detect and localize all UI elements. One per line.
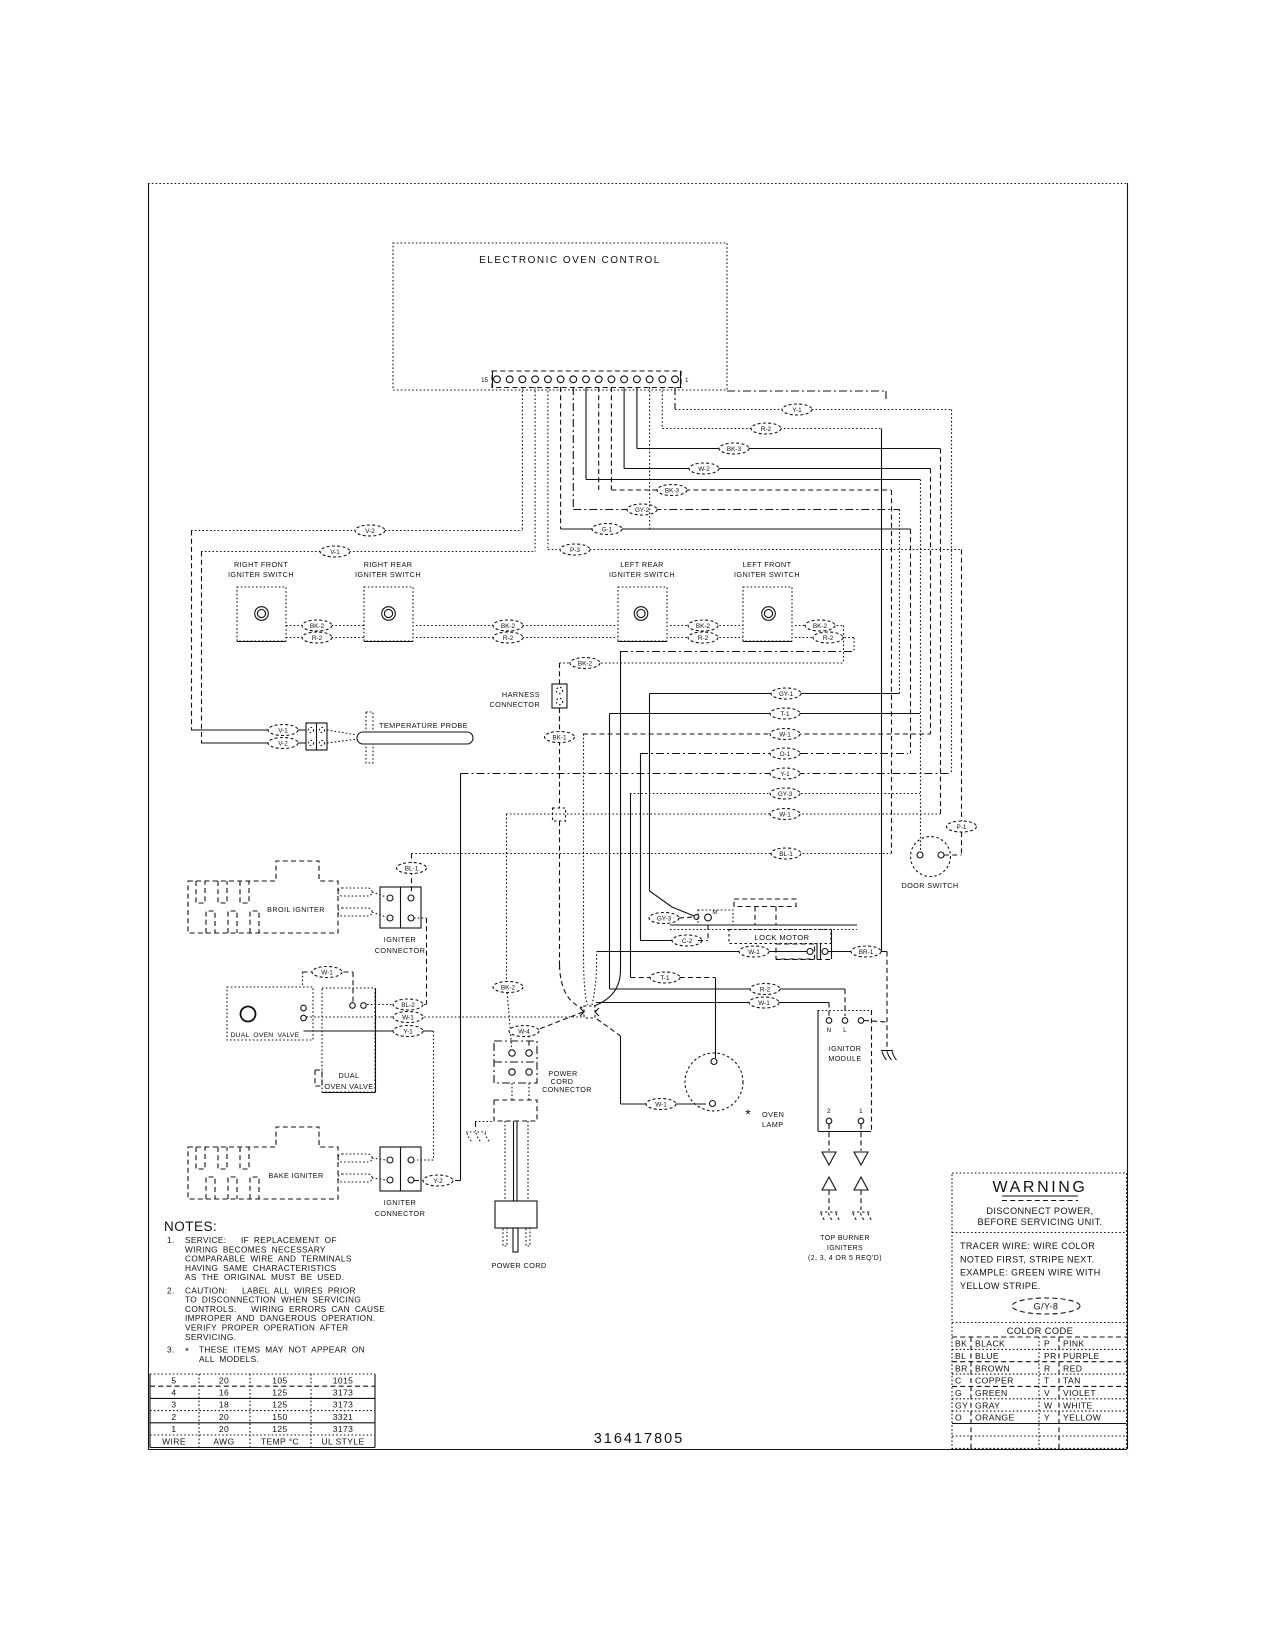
svg-text:POWER CORD: POWER CORD <box>491 1261 546 1270</box>
wire W-1 (bundle row) <box>583 729 931 1006</box>
svg-text:NOTES:: NOTES: <box>164 1219 217 1234</box>
svg-text:CONNECTOR: CONNECTOR <box>375 1209 426 1218</box>
svg-text:IGNITER SWITCH: IGNITER SWITCH <box>228 570 294 579</box>
svg-text:UL STYLE: UL STYLE <box>321 1436 364 1446</box>
wire T-1 to oven lamp <box>631 972 716 1058</box>
svg-text:V-2: V-2 <box>278 740 288 747</box>
svg-text:125: 125 <box>272 1400 287 1410</box>
svg-text:R-2: R-2 <box>312 635 323 642</box>
broil igniter E2 <box>188 861 372 933</box>
wire G-1 (terminal 10 to right bundle) <box>561 387 911 754</box>
svg-text:OVEN VALVE: OVEN VALVE <box>324 1082 373 1091</box>
svg-text:Y-1: Y-1 <box>403 1028 413 1035</box>
wire Y-2 from bake connector <box>414 1175 461 1186</box>
svg-text:20: 20 <box>219 1412 229 1422</box>
svg-text:BL-2: BL-2 <box>401 1002 415 1009</box>
dual oven valve body V2 <box>315 988 376 1093</box>
wire W-1 junction to oven lamp <box>597 1019 706 1110</box>
svg-text:GY-3: GY-3 <box>778 791 793 798</box>
wire R-2 to igniter module <box>610 984 846 1017</box>
EOC bottom-right wire stub <box>727 391 886 399</box>
wire BL-1 (bundle row to broil igniter) <box>397 848 892 895</box>
svg-text:O-1: O-1 <box>780 751 791 758</box>
svg-text:2.: 2. <box>167 1285 175 1295</box>
svg-text:BR: BR <box>955 1363 968 1373</box>
notes text block <box>164 1219 385 1364</box>
svg-text:*: * <box>745 1106 751 1122</box>
svg-text:L: L <box>843 1027 847 1034</box>
svg-text:1015: 1015 <box>333 1375 354 1385</box>
svg-text:ORANGE: ORANGE <box>975 1413 1015 1423</box>
svg-text:T-1: T-1 <box>780 711 790 718</box>
svg-text:P-3: P-3 <box>570 547 580 554</box>
lock motor terminal block <box>776 943 832 960</box>
svg-text:Y-1: Y-1 <box>792 407 802 414</box>
svg-text:20: 20 <box>219 1424 229 1434</box>
svg-text:Y: Y <box>1044 1413 1050 1423</box>
svg-text:NOTED FIRST, STRIPE NEXT.: NOTED FIRST, STRIPE NEXT. <box>960 1254 1095 1264</box>
svg-text:BL-1: BL-1 <box>779 851 793 858</box>
wire C-2 into lock motor <box>641 925 709 946</box>
svg-text:BK-2: BK-2 <box>501 984 516 991</box>
terminal stubs 3 and 7 <box>599 387 650 530</box>
wire W-1 lower (bundle row) <box>493 809 940 1048</box>
igniter module output 2 <box>822 1124 836 1165</box>
wire V-2 lead <box>201 738 306 749</box>
door switch S5 <box>901 837 958 891</box>
svg-text:T: T <box>1044 1376 1050 1386</box>
svg-text:GY-1: GY-1 <box>779 691 794 698</box>
svg-text:RIGHT FRONT: RIGHT FRONT <box>234 560 288 569</box>
svg-text:R-2: R-2 <box>823 635 834 642</box>
svg-text:150: 150 <box>272 1412 287 1422</box>
part number 316417805 <box>594 1431 685 1447</box>
EOC terminal strip P5 <box>481 371 689 388</box>
svg-text:ALL MODELS.: ALL MODELS. <box>199 1354 259 1364</box>
svg-text:1: 1 <box>171 1424 176 1434</box>
top burner igniters label <box>808 1235 882 1262</box>
svg-text:R-2: R-2 <box>760 986 771 993</box>
lock motor solenoid bar <box>734 899 796 925</box>
svg-text:LEFT FRONT: LEFT FRONT <box>743 560 792 569</box>
svg-text:1.: 1. <box>167 1235 175 1245</box>
harness connector P2 <box>490 684 568 709</box>
power cord cable <box>505 1121 528 1201</box>
svg-text:W-1: W-1 <box>779 731 791 738</box>
wire BK-3 lower (terminal 6 to right bundle) <box>611 387 891 854</box>
svg-text:BLUE: BLUE <box>975 1351 999 1361</box>
svg-text:PINK: PINK <box>1063 1339 1085 1349</box>
svg-text:3173: 3173 <box>333 1400 354 1410</box>
svg-text:W-1: W-1 <box>321 969 333 976</box>
svg-text:CONNECTOR: CONNECTOR <box>375 946 426 955</box>
svg-text:N: N <box>827 1027 832 1034</box>
svg-text:IGNITOR: IGNITOR <box>829 1044 862 1053</box>
svg-text:105: 105 <box>272 1375 287 1385</box>
temperature probe connector <box>306 723 327 750</box>
border frame <box>148 183 1128 1450</box>
svg-text:GY: GY <box>955 1400 968 1410</box>
right rear igniter switch S2 <box>355 560 421 642</box>
igniter module U2 <box>818 1010 872 1132</box>
svg-text:2: 2 <box>827 1108 831 1115</box>
svg-text:R-2: R-2 <box>503 635 514 642</box>
svg-text:BR-1: BR-1 <box>859 949 874 956</box>
svg-text:LEFT REAR: LEFT REAR <box>620 560 664 569</box>
svg-text:15: 15 <box>481 377 488 384</box>
svg-text:BK: BK <box>955 1339 967 1349</box>
svg-text:BK-2: BK-2 <box>501 623 516 630</box>
wire BK-1 below harness connector <box>545 708 575 808</box>
svg-text:EXAMPLE: GREEN WIRE WITH: EXAMPLE: GREEN WIRE WITH <box>960 1268 1101 1278</box>
svg-text:V-1: V-1 <box>330 549 340 556</box>
wire BK-2 switch chain <box>286 620 844 631</box>
svg-text:W-1: W-1 <box>758 1000 770 1007</box>
svg-text:5: 5 <box>171 1375 176 1385</box>
svg-text:SERVICING.: SERVICING. <box>185 1332 236 1342</box>
svg-text:COPPER: COPPER <box>975 1376 1014 1386</box>
svg-text:BROIL IGNITER: BROIL IGNITER <box>267 905 325 914</box>
svg-text:P-1: P-1 <box>957 824 967 831</box>
svg-text:T-1: T-1 <box>660 975 670 982</box>
svg-text:Y-1: Y-1 <box>780 771 790 778</box>
bake igniter connector P4 <box>372 1147 425 1218</box>
color code table <box>952 1337 1127 1448</box>
svg-text:BK-2: BK-2 <box>813 623 828 630</box>
svg-text:BEFORE SERVICING UNIT.: BEFORE SERVICING UNIT. <box>977 1217 1102 1227</box>
svg-text:316417805: 316417805 <box>594 1431 685 1447</box>
wire T-1 (bundle to junction column) <box>610 708 921 989</box>
svg-text:TEMP °C: TEMP °C <box>261 1436 299 1446</box>
broil igniter connector P3 <box>372 887 425 955</box>
svg-text:18: 18 <box>219 1400 229 1410</box>
svg-text:*: * <box>185 1347 189 1358</box>
svg-text:DOOR SWITCH: DOOR SWITCH <box>901 881 958 890</box>
electronic oven control U1 <box>393 243 727 390</box>
lock motor M1 <box>698 910 733 925</box>
wire GY-3 (bundle row) <box>630 788 920 978</box>
svg-text:COLOR CODE: COLOR CODE <box>1007 1326 1074 1336</box>
svg-text:IGNITER SWITCH: IGNITER SWITCH <box>355 570 421 579</box>
svg-text:GY-2: GY-2 <box>635 507 650 514</box>
svg-text:RED: RED <box>1063 1363 1082 1373</box>
svg-text:G/Y-8: G/Y-8 <box>1034 1302 1059 1312</box>
svg-text:PR: PR <box>1044 1351 1057 1361</box>
svg-text:125: 125 <box>272 1424 287 1434</box>
svg-text:R-2: R-2 <box>761 426 772 433</box>
svg-text:3173: 3173 <box>333 1424 354 1434</box>
svg-text:BAKE IGNITER: BAKE IGNITER <box>268 1171 323 1180</box>
svg-text:W-1: W-1 <box>402 1014 414 1021</box>
wire W-1 junction to igniter module <box>596 997 829 1016</box>
svg-text:V-1: V-1 <box>278 727 288 734</box>
svg-text:AWG: AWG <box>213 1436 234 1446</box>
svg-text:IGNITER: IGNITER <box>384 1198 416 1207</box>
wire Y-1 (oven valve to bake connector) <box>304 1026 434 1161</box>
svg-text:OVEN: OVEN <box>762 1110 784 1119</box>
svg-text:R: R <box>1044 1363 1051 1373</box>
svg-text:W-4: W-4 <box>518 1028 530 1035</box>
lock motor frame bar <box>670 925 857 959</box>
svg-text:W-1: W-1 <box>748 949 760 956</box>
wire P-3 (terminal 11 to right bundle) <box>548 387 962 821</box>
dual oven valve (gas) V1 <box>227 987 313 1040</box>
svg-text:BK-2: BK-2 <box>310 623 325 630</box>
svg-text:TAN: TAN <box>1063 1376 1081 1386</box>
svg-text:DISCONNECT POWER,: DISCONNECT POWER, <box>986 1206 1093 1216</box>
svg-text:TEMPERATURE PROBE: TEMPERATURE PROBE <box>379 721 468 730</box>
svg-text:RIGHT REAR: RIGHT REAR <box>364 560 413 569</box>
svg-text:R-2: R-2 <box>698 635 709 642</box>
svg-text:ELECTRONIC OVEN CONTROL: ELECTRONIC OVEN CONTROL <box>479 255 661 266</box>
svg-text:W-1: W-1 <box>655 1101 667 1108</box>
svg-text:V-2: V-2 <box>365 528 375 535</box>
wire gauge table <box>150 1374 375 1448</box>
wire P-1 to door switch <box>944 821 977 855</box>
power cord plug <box>491 1201 546 1270</box>
top burner igniter lead 2 <box>820 1177 841 1222</box>
wire O-1 (bundle row) <box>640 748 908 941</box>
svg-text:CONNECTOR: CONNECTOR <box>490 700 541 709</box>
wire V-1 lead <box>191 725 306 736</box>
top burner igniter lead 1 <box>852 1177 873 1222</box>
wire GY-3 into lock motor <box>649 913 699 924</box>
bake igniter E1 <box>188 1127 372 1199</box>
svg-text:2: 2 <box>171 1412 176 1422</box>
left front igniter switch S4 <box>734 560 800 642</box>
svg-text:BK-2: BK-2 <box>696 623 711 630</box>
svg-text:G-1: G-1 <box>602 526 613 533</box>
svg-text:IGNITERS: IGNITERS <box>827 1245 863 1252</box>
svg-text:20: 20 <box>219 1375 229 1385</box>
svg-text:G: G <box>955 1388 962 1398</box>
svg-text:BL-1: BL-1 <box>405 865 419 872</box>
svg-text:MODULE: MODULE <box>828 1054 861 1063</box>
wire BK-2 to harness connector <box>560 626 844 685</box>
svg-text:16: 16 <box>219 1388 229 1398</box>
svg-text:GY-3: GY-3 <box>657 915 672 922</box>
svg-text:BK-2: BK-2 <box>578 660 593 667</box>
wire R-2 return to junction <box>594 638 854 1007</box>
svg-text:3: 3 <box>171 1400 176 1410</box>
svg-text:YELLOW STRIPE.: YELLOW STRIPE. <box>960 1281 1041 1291</box>
svg-text:C-2: C-2 <box>682 938 693 945</box>
svg-text:IGNITER: IGNITER <box>384 935 416 944</box>
wire W-1 over oven valve <box>303 967 354 1003</box>
wire BL-2 (broil connector to oven valve) <box>367 918 427 1010</box>
wire Y-1 (bundle row to bake igniter side) <box>461 768 952 1181</box>
power cord strain relief <box>494 1083 537 1121</box>
svg-text:Y-2: Y-2 <box>433 1178 443 1185</box>
svg-text:TRACER WIRE: WIRE COLOR: TRACER WIRE: WIRE COLOR <box>960 1241 1095 1251</box>
right front igniter switch S1 <box>228 560 294 642</box>
wire BK-1 (terminal 8 to right bundle) <box>586 387 921 852</box>
svg-text:DUAL OVEN VALVE: DUAL OVEN VALVE <box>231 1032 300 1039</box>
wire W-1 to lock motor <box>592 946 807 1005</box>
svg-text:BLACK: BLACK <box>975 1339 1005 1349</box>
warning box <box>952 1173 1127 1448</box>
svg-text:V: V <box>1044 1388 1050 1398</box>
svg-text:WHITE: WHITE <box>1063 1400 1093 1410</box>
svg-text:C: C <box>955 1376 962 1386</box>
svg-text:TOP BURNER: TOP BURNER <box>820 1235 870 1242</box>
svg-text:P: P <box>1044 1339 1050 1349</box>
svg-text:W-1: W-1 <box>779 811 791 818</box>
svg-text:4: 4 <box>171 1388 176 1398</box>
left rear igniter switch S3 <box>609 560 675 642</box>
svg-text:O: O <box>955 1413 962 1423</box>
svg-text:BK-3: BK-3 <box>727 446 742 453</box>
svg-text:CONNECTOR: CONNECTOR <box>542 1085 592 1094</box>
svg-text:3.: 3. <box>167 1345 175 1355</box>
svg-text:3173: 3173 <box>333 1388 354 1398</box>
power cord connector P1 <box>494 1041 592 1094</box>
wire V-1 (terminal 12 to temperature probe) <box>201 387 535 743</box>
svg-text:125: 125 <box>272 1388 287 1398</box>
svg-text:LOCK MOTOR: LOCK MOTOR <box>755 933 810 942</box>
svg-text:DUAL: DUAL <box>338 1071 359 1080</box>
wire Y-1 (terminal 1 to right bundle) <box>675 387 952 774</box>
svg-text:IGNITER SWITCH: IGNITER SWITCH <box>609 570 675 579</box>
wire GY-2 (terminal 9 to right bundle) <box>573 387 899 693</box>
oven lamp DS1 <box>685 1053 784 1129</box>
ground G2 at power cord <box>466 1122 494 1142</box>
wire BR-1 from lock motor <box>828 946 887 1048</box>
wire R-2 (terminal 2 to right bundle) <box>662 387 881 952</box>
svg-text:VIOLET: VIOLET <box>1063 1388 1096 1398</box>
svg-text:WIRE: WIRE <box>162 1436 186 1446</box>
wire W-1 (oven valve to junction) <box>307 1012 584 1023</box>
EOC terminal pins 1-15 <box>494 376 679 383</box>
svg-text:HARNESS: HARNESS <box>502 690 540 699</box>
lock motor body <box>729 930 831 944</box>
svg-text:W: W <box>1044 1400 1053 1410</box>
svg-text:BK-1: BK-1 <box>552 734 567 741</box>
svg-text:AS THE ORIGINAL MUST BE USED.: AS THE ORIGINAL MUST BE USED. <box>185 1272 344 1282</box>
temperature probe <box>327 712 473 763</box>
wire V-2 (terminal 13 to temperature probe) <box>191 387 522 730</box>
svg-text:LAMP: LAMP <box>762 1120 783 1129</box>
svg-text:WARNING: WARNING <box>993 1179 1088 1196</box>
svg-text:(2, 3, 4 OR 5 REQ'D): (2, 3, 4 OR 5 REQ'D) <box>808 1255 882 1262</box>
svg-text:GRAY: GRAY <box>975 1400 1000 1410</box>
wire R-2 switch chain <box>286 632 854 643</box>
svg-text:GREEN: GREEN <box>975 1388 1008 1398</box>
wire W-4 junction to power cord connector <box>509 1012 583 1047</box>
svg-text:BROWN: BROWN <box>975 1363 1010 1373</box>
wire GY-1 (lock motor to bundle) <box>650 688 900 916</box>
svg-text:M: M <box>712 910 717 916</box>
svg-text:1: 1 <box>685 377 689 384</box>
svg-text:3321: 3321 <box>333 1412 354 1422</box>
igniter module output 1 <box>854 1124 868 1165</box>
svg-text:1: 1 <box>859 1108 863 1115</box>
svg-text:YELLOW: YELLOW <box>1063 1413 1102 1423</box>
svg-text:IGNITER SWITCH: IGNITER SWITCH <box>734 570 800 579</box>
svg-text:W-2: W-2 <box>698 466 710 473</box>
svg-text:PURPLE: PURPLE <box>1063 1351 1100 1361</box>
svg-text:BL: BL <box>955 1351 966 1361</box>
junction splice node <box>580 1006 599 1018</box>
ground G1 at igniter module <box>864 1021 897 1061</box>
node splice on W-1 wire <box>553 808 583 1008</box>
svg-text:BK-3: BK-3 <box>665 487 680 494</box>
wire W-2 (terminal 5 to right bundle) <box>624 387 930 734</box>
wire BK-3 (terminal 4 to right bundle) <box>637 387 941 814</box>
